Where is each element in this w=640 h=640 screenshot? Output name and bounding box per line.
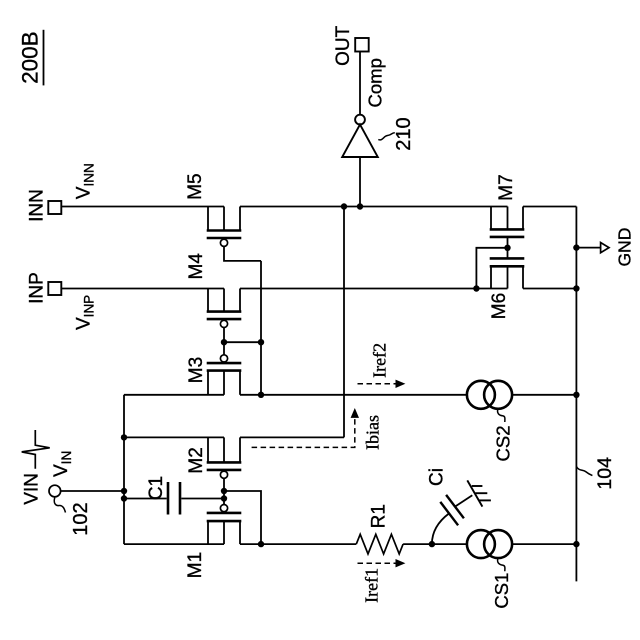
wire M4-M3 gate tie [224,341,261,343]
label M7 [496,174,517,200]
svg-text:M4: M4 [186,253,207,280]
pointer squiggle CS1 [498,558,505,571]
figure label underline [43,30,45,86]
wire M6 gate lead [507,248,509,259]
label M2 [186,447,207,473]
capacitor C1 [124,482,224,515]
wire INP line right [523,288,576,290]
label Ci [426,468,447,486]
svg-text:VIN: VIN [22,473,43,505]
terminal INP [48,282,61,295]
node M7 gate [504,245,510,251]
svg-text:200B: 200B [18,31,43,84]
wire inverter output [359,52,361,115]
label C1 [146,476,167,500]
svg-text:Iref2: Iref2 [370,343,390,378]
label VINN [74,163,97,199]
node M6 diode tie [473,285,479,291]
wire M2 line right [240,436,344,438]
source VIN terminal [49,485,61,497]
node tail line bus [573,392,579,398]
transistor M7 [490,207,525,237]
wire mid gate vertical [260,261,262,395]
terminal OUT [355,38,369,52]
capacitor Ci lead arc [432,513,449,544]
svg-text:C1: C1 [146,476,167,500]
svg-text:INN: INN [27,189,48,222]
wire M6-M7 gate tie [476,248,507,289]
svg-text:Comp: Comp [365,58,386,107]
label M5 [185,173,206,199]
wire M5 gate lead [224,246,261,261]
figure label 200B [18,31,43,84]
arrow Iref1 [358,559,406,567]
transistor M5 [207,207,242,247]
node vertical to tail line [258,392,264,398]
pointer squiggle 104 [576,466,592,475]
wire VIN to rail [61,490,124,492]
node gate VIN tap [221,488,227,494]
svg-text:210: 210 [393,117,415,150]
svg-text:OUT: OUT [333,25,354,66]
label M6 [489,293,510,319]
wire gate to drain L [224,491,261,544]
wire M2-M1 gate lead [223,478,225,504]
svg-text:Ibias: Ibias [363,415,383,450]
wire M3 gate lead [223,342,225,355]
node bus INP line [573,285,579,291]
capacitor Ci [440,495,464,525]
svg-text:M2: M2 [186,447,207,473]
substrate ground hatch [467,480,491,506]
wire INP line mid [240,288,508,290]
transistor M4 [207,289,242,328]
label V_IN [51,451,74,477]
label Iref2 [370,343,390,378]
wire tail line mid [240,394,467,396]
node Ci tap [429,541,435,547]
label 210 [393,117,415,150]
svg-text:104: 104 [594,457,616,490]
inverter U210 [342,115,378,157]
svg-text:M3: M3 [186,357,207,383]
transistor M1 [207,505,242,545]
transistor M3 [207,355,242,395]
label Iref1 [361,568,381,603]
wire INN line right [523,206,576,208]
current source CS1 [467,530,512,558]
label 104 [594,457,616,490]
current source CS2 [467,381,512,409]
svg-text:M6: M6 [489,293,510,319]
label 102 [70,502,92,535]
transistor M6 [490,258,525,288]
wire inverter input stem [359,157,361,207]
node bus GND tap [573,244,579,250]
label M4 [186,253,207,280]
node M2 drain to INN [341,203,347,209]
label CS1 [491,573,512,609]
node rail VIN [121,488,127,494]
svg-text:Ci: Ci [426,468,447,486]
wire GND tap [576,247,600,249]
wire M4 gate lead [223,328,225,343]
node M1 drain tie [258,541,264,547]
wire bottom line left [124,543,224,545]
node rail C1 [121,495,127,501]
label Ibias [363,415,383,450]
transistor M2 [207,437,242,478]
ground GND symbol [601,243,609,253]
node M4 M3 gates [221,339,227,345]
pointer squiggle 210 [378,133,395,140]
arrow Ibias [252,408,359,447]
label CS2 [493,426,514,462]
svg-text:INP: INP [27,272,48,304]
svg-text:R1: R1 [369,504,390,528]
label M1 [185,552,206,578]
label GND [615,228,635,267]
arrow Iref2 [358,380,406,388]
node gate tie on vertical [258,339,264,345]
label M3 [186,357,207,383]
wire INN line left [61,206,224,208]
wire ground bus [575,207,577,582]
wire tail line (M3 source) left [124,394,224,396]
svg-text:GND: GND [615,228,635,267]
wire M7 gate lead [507,237,509,248]
svg-text:M1: M1 [185,552,206,578]
svg-text:CS2: CS2 [493,426,514,462]
svg-text:102: 102 [70,502,92,535]
wire CS1 to bus [512,543,576,545]
node bottom bus [573,541,579,547]
node gate C1 tap [221,495,227,501]
node rail M2 line [121,434,127,440]
wire Ci to substrate [455,495,472,506]
wire bottom line mid [240,543,356,545]
svg-text:M7: M7 [496,174,517,200]
node inverter input [357,203,363,209]
svg-text:CS1: CS1 [491,573,512,609]
wire tail line right [512,394,576,396]
wire R1 to CS1 [403,543,467,545]
label VINP [74,295,97,330]
wire INN line mid [240,206,508,208]
resistor R1 [356,534,403,554]
label OUT [333,25,354,66]
terminal INN [48,201,61,214]
svg-text:M5: M5 [185,173,206,199]
pointer squiggle 102 [54,498,65,513]
label INP [27,272,48,304]
wire M2 line left [124,436,224,438]
wire INP line left [61,288,224,290]
label Comp [365,58,386,107]
label VIN [22,473,43,505]
label INN [27,189,48,222]
pointer squiggle CS2 [498,409,505,422]
svg-text:Iref1: Iref1 [361,568,381,603]
label R1 [369,504,390,528]
waveform pulse icon [22,430,50,469]
wire M2 drain vertical [343,207,345,438]
wire left rail [123,395,125,544]
